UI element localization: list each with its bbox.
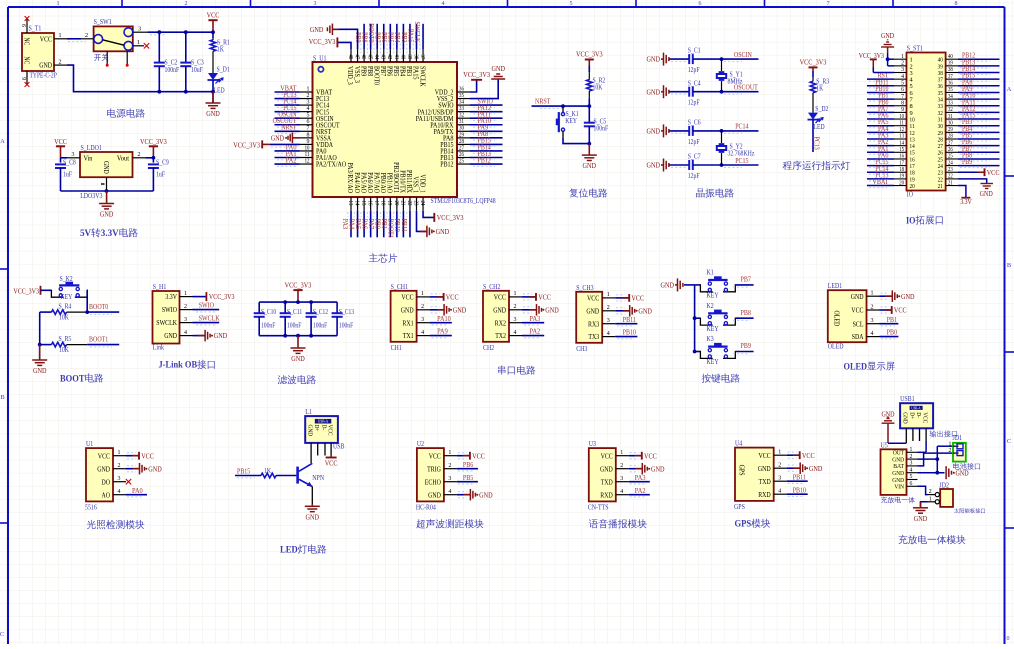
ground symbol right of chip (pointing up) — [491, 78, 505, 80]
wire/net PA12 at ST1 pin 32 — [958, 111, 1000, 113]
caption 串口电路 — [498, 366, 535, 375]
svg-text:28: 28 — [459, 139, 464, 145]
svg-text:GND: GND — [214, 331, 228, 340]
svg-text:31: 31 — [948, 114, 953, 120]
LDO GND pin — [106, 177, 108, 191]
svg-text:VCC_3V3: VCC_3V3 — [285, 281, 312, 290]
svg-text:13: 13 — [899, 134, 904, 140]
wire left rail to ground (boot) — [39, 312, 41, 360]
svg-text:24: 24 — [419, 201, 425, 206]
svg-text:2: 2 — [620, 463, 623, 469]
svg-text:PA2: PA2 — [286, 155, 297, 164]
svg-text:3: 3 — [138, 25, 141, 32]
wire/net PB11 at U1 bottom pin 22 — [409, 211, 411, 238]
svg-text:A: A — [0, 138, 5, 145]
svg-text:PB11: PB11 — [623, 315, 637, 324]
wire/net PA2 at U3 pin 4 — [629, 494, 650, 496]
svg-text:VCC: VCC — [207, 11, 220, 20]
svg-text:4: 4 — [778, 489, 781, 495]
wire/net PA10 at ST1 pin 34 — [958, 98, 1000, 100]
svg-text:34: 34 — [948, 94, 953, 100]
svg-text:23: 23 — [412, 201, 418, 206]
svg-text:GND: GND — [164, 332, 177, 340]
svg-text:3: 3 — [184, 317, 187, 323]
svg-text:3: 3 — [910, 461, 913, 467]
key S_K1 (reset button) — [562, 106, 564, 112]
wire/net PB0 at U1 bottom pin 18 — [383, 211, 385, 238]
svg-text:S_C13: S_C13 — [339, 309, 355, 316]
wire/net PB7 at K1 — [735, 284, 753, 286]
svg-text:PB6: PB6 — [463, 460, 474, 469]
no-connect at U1 pin 3 — [126, 479, 131, 484]
svg-text:12pF: 12pF — [688, 66, 700, 74]
svg-text:BOOT0: BOOT0 — [89, 302, 109, 311]
svg-text:27: 27 — [948, 140, 953, 146]
svg-text:S_C7: S_C7 — [688, 153, 701, 161]
svg-text:B: B — [0, 394, 5, 401]
svg-text:2: 2 — [607, 305, 610, 311]
svg-text:4: 4 — [118, 489, 121, 495]
ground symbol above ST1 (pointing up) — [887, 48, 889, 54]
svg-text:4: 4 — [448, 489, 451, 495]
power port VCC (LDO input) — [60, 146, 62, 158]
svg-text:1: 1 — [59, 33, 62, 39]
ground symbol boot — [39, 345, 41, 360]
caption 滤波电路 — [278, 375, 316, 384]
wire/net PB6 at ST1 pin 27 — [958, 145, 1000, 147]
svg-text:SWCLK: SWCLK — [199, 314, 221, 323]
svg-text:100nF: 100nF — [165, 66, 180, 74]
wire/net PA15 at ST1 pin 31 — [958, 118, 1000, 120]
svg-text:5: 5 — [307, 113, 310, 119]
svg-text:GND: GND — [647, 127, 661, 136]
wire/net PA3 at ST1 pin 13 — [867, 138, 894, 140]
L1 pin GND stub to Q1 collector — [310, 443, 312, 463]
svg-text:S_R4: S_R4 — [59, 302, 72, 310]
wire/net PA5 at U1 bottom pin 15 — [363, 211, 365, 238]
svg-text:OLED: OLED — [828, 343, 844, 351]
svg-text:S_H1: S_H1 — [153, 283, 167, 291]
svg-text:1: 1 — [118, 450, 121, 456]
module U2 HC-R04 — [417, 448, 444, 501]
svg-text:25: 25 — [459, 158, 464, 164]
svg-text:OLED: OLED — [832, 311, 840, 327]
svg-text:5: 5 — [910, 474, 913, 480]
svg-text:GND: GND — [453, 305, 467, 314]
ground rail of LDO block — [61, 190, 154, 192]
junction C2 bottom — [157, 90, 161, 94]
svg-text:1: 1 — [307, 86, 310, 92]
svg-text:GND: GND — [310, 25, 324, 34]
wire/net BOOT0 at U1 top pin 44 — [376, 24, 378, 50]
wire/net PA5 at ST1 pin 11 — [867, 125, 894, 127]
connector S_H1 J-Link — [153, 291, 180, 344]
wire/net OSCOUT at U1 pin 6 — [275, 124, 300, 126]
svg-text:2: 2 — [185, 1, 188, 7]
svg-text:2: 2 — [514, 304, 517, 310]
svg-text:VCC: VCC — [325, 459, 338, 468]
label 电池接口 — [953, 463, 980, 470]
svg-text:CH2: CH2 — [483, 344, 495, 352]
connector JD2 solar — [940, 489, 953, 507]
wire U5.2 GND joins gnd net — [918, 458, 938, 460]
svg-text:GND: GND — [914, 514, 928, 523]
wire/net PA0 at ST1 pin 16 — [867, 158, 894, 160]
svg-text:38: 38 — [412, 54, 418, 59]
svg-text:PB10: PB10 — [793, 485, 807, 494]
svg-text:VCC_3V3: VCC_3V3 — [859, 52, 885, 60]
power port VCC_3V3 top of chip — [336, 37, 338, 47]
wire/net PA9 at ST1 pin 35 — [958, 91, 1000, 93]
wire U1 VDD_3 to VCC_3V3 (top) — [337, 42, 351, 49]
wire/net PC15 at U1 pin 4 — [275, 111, 300, 113]
svg-text:TRIG: TRIG — [427, 465, 441, 473]
svg-text:PA2/TX/AO: PA2/TX/AO — [316, 161, 346, 169]
power port VCC_3V3 bottom of chip — [433, 213, 435, 222]
svg-text:GND: GND — [271, 134, 285, 143]
wire/net PA9 at U1 pin 30 — [470, 130, 503, 132]
svg-text:VCC: VCC — [538, 293, 551, 302]
svg-text:S_SW1: S_SW1 — [94, 18, 112, 26]
svg-text:26: 26 — [459, 152, 464, 158]
svg-text:GND: GND — [100, 210, 114, 219]
svg-text:22: 22 — [406, 201, 412, 206]
svg-text:S_C1: S_C1 — [688, 47, 701, 55]
svg-text:D+: D+ — [908, 412, 915, 419]
svg-text:43: 43 — [380, 54, 386, 59]
svg-text:PB9: PB9 — [962, 158, 973, 166]
svg-text:10K: 10K — [593, 84, 603, 92]
svg-text:GND: GND — [428, 491, 441, 499]
svg-text:VCC: VCC — [472, 451, 485, 460]
svg-text:25: 25 — [948, 154, 953, 160]
svg-text:GPS: GPS — [735, 519, 752, 530]
svg-text:1: 1 — [607, 292, 610, 298]
capacitor S_C13 100nF — [336, 302, 338, 313]
svg-text:S_ST1: S_ST1 — [907, 44, 923, 52]
svg-text:S_R5: S_R5 — [59, 335, 72, 343]
svg-text:1: 1 — [949, 441, 952, 447]
svg-text:PB10: PB10 — [623, 328, 637, 337]
svg-text:LED: LED — [214, 87, 225, 95]
ground symbol filter — [297, 336, 299, 348]
svg-text:GND: GND — [647, 161, 661, 170]
wire/net PA2 at ST1 pin 14 — [867, 145, 894, 147]
capacitor S_C11 100nF — [284, 302, 286, 313]
svg-text:VCC_3V3: VCC_3V3 — [576, 50, 603, 59]
wire/net PB7 at ST1 pin 26 — [958, 151, 1000, 153]
caption 5V转3.3V电路 — [80, 228, 138, 239]
svg-text:VCC: VCC — [644, 451, 657, 460]
svg-text:GND: GND — [651, 464, 665, 473]
svg-text:2: 2 — [85, 32, 88, 39]
svg-text:1K: 1K — [217, 46, 224, 54]
svg-text:3: 3 — [514, 317, 517, 323]
svg-text:ECHO: ECHO — [425, 478, 441, 486]
wire/net PA6 at ST1 pin 10 — [867, 118, 894, 120]
wire/net PB8 at ST1 pin 25 — [958, 158, 1000, 160]
svg-text:2: 2 — [949, 448, 952, 454]
caption 开关 — [94, 54, 108, 61]
wire/net GND at U2 pin 4 — [457, 494, 471, 496]
svg-text:GND: GND — [39, 62, 52, 70]
wire/net PB0 at LED1 pin 4 — [880, 336, 899, 338]
svg-text:HC-R04: HC-R04 — [416, 504, 436, 512]
svg-text:8MHz: 8MHz — [728, 77, 743, 85]
svg-text:4: 4 — [910, 467, 913, 473]
svg-text:15: 15 — [899, 147, 904, 153]
caption LED灯电路 — [280, 545, 326, 556]
svg-text:S_U1: S_U1 — [313, 55, 327, 63]
wire D2 to net PC13 — [812, 120, 814, 152]
svg-text:8: 8 — [955, 1, 958, 7]
wire T1.GND down and right to ground rail — [67, 65, 213, 92]
svg-text:19: 19 — [386, 201, 392, 206]
svg-text:VCC: VCC — [802, 451, 815, 460]
svg-text:24: 24 — [948, 160, 953, 166]
svg-text:7: 7 — [901, 94, 904, 100]
wire H1.4 to GND — [193, 335, 206, 337]
svg-text:Vout: Vout — [117, 155, 129, 163]
svg-text:GND: GND — [638, 306, 652, 315]
wire/net PC13 at U1 pin 2 — [275, 98, 300, 100]
caption 光照检测模块 — [87, 520, 145, 530]
wire U5.1 OUT to USB1 VCC — [918, 451, 927, 453]
capacitor S_C5 100nF — [588, 106, 590, 123]
wire/net PB8 at U1 top pin 45 — [370, 24, 372, 50]
svg-text:GND: GND — [493, 306, 506, 314]
svg-text:GND: GND — [980, 189, 994, 198]
wire/net PA1 at ST1 pin 15 — [867, 151, 894, 153]
wire K2 to BOOT0 node — [86, 290, 88, 312]
svg-text:16: 16 — [367, 201, 373, 206]
wire/net PB11 at S_CH3 pin 3 — [615, 323, 637, 325]
mcu S_U1 STM32F103C8T6 LQFP48 — [313, 62, 458, 197]
wire/net PA12 at U1 pin 33 — [470, 111, 503, 113]
svg-text:3: 3 — [448, 476, 451, 482]
svg-text:VCC: VCC — [631, 294, 644, 303]
caption 按键电路 — [702, 374, 740, 383]
module U3 CN-TTS — [589, 448, 616, 501]
svg-text:K3: K3 — [707, 335, 715, 343]
svg-text:2: 2 — [448, 463, 451, 469]
svg-text:36: 36 — [948, 81, 953, 87]
wire T1.VCC to SW1 pin2 — [67, 38, 81, 40]
svg-text:KEY: KEY — [565, 117, 577, 125]
junction ground rail at LED — [211, 90, 215, 94]
svg-text:SWIO: SWIO — [162, 306, 177, 314]
wire/net PB10 at S_CH3 pin 4 — [615, 336, 637, 338]
filter bottom rail — [259, 335, 337, 337]
svg-text:RX2: RX2 — [495, 319, 507, 327]
wire/net GND at U4 pin 2 — [787, 467, 801, 469]
svg-text:PB7: PB7 — [741, 275, 752, 284]
svg-text:PA9: PA9 — [437, 327, 448, 336]
svg-text:VCC: VCC — [429, 452, 441, 460]
resistor S_R1 1K — [212, 32, 214, 38]
regulator S_LDO1 LDO3V3 — [80, 152, 133, 177]
svg-text:18: 18 — [899, 167, 904, 173]
label 充放电一体 — [881, 496, 915, 503]
capacitor S_C12 100nF — [310, 302, 312, 313]
ST1 pin3 wire to VCC_3V3 — [872, 67, 874, 73]
resistor S_R5 10K — [40, 344, 52, 346]
svg-text:14: 14 — [353, 201, 359, 206]
wire/net GND at LED1 pin 1 — [880, 295, 893, 297]
svg-text:OSCIN: OSCIN — [734, 50, 753, 59]
wire/net PB15 at ST1 pin 37 — [958, 78, 1000, 80]
svg-text:GND: GND — [586, 307, 599, 315]
svg-text:VCC_3V3: VCC_3V3 — [800, 58, 827, 67]
wire/net PB3 at ST1 pin 30 — [958, 125, 1000, 127]
svg-text:7: 7 — [827, 1, 830, 7]
svg-text:RX3: RX3 — [588, 320, 600, 328]
key K2 — [693, 316, 697, 320]
caption 电源电路 — [107, 109, 145, 118]
key S_K2 — [51, 290, 63, 298]
caption IO拓展口 — [906, 215, 943, 226]
svg-text:SCL: SCL — [853, 320, 864, 328]
svg-text:4: 4 — [442, 1, 445, 7]
svg-text:KEY: KEY — [707, 358, 720, 366]
pin 2 Vout — [133, 157, 146, 159]
svg-text:GND: GND — [647, 55, 661, 64]
svg-text:RXD: RXD — [758, 491, 771, 499]
SW1 pin 2 stub — [81, 38, 94, 40]
svg-text:1: 1 — [871, 291, 874, 297]
net label NRST wire — [532, 105, 590, 107]
svg-text:37: 37 — [948, 74, 953, 80]
svg-text:VCC: VCC — [98, 452, 110, 460]
svg-text:41: 41 — [393, 54, 399, 59]
svg-text:48: 48 — [347, 54, 353, 59]
svg-text:GND: GND — [97, 465, 110, 473]
wire/net PA3 at U3 pin 3 — [629, 481, 650, 483]
svg-text:33: 33 — [948, 100, 953, 106]
module U1 5516 — [86, 448, 113, 501]
svg-text:JD1: JD1 — [953, 434, 963, 442]
svg-text:9: 9 — [20, 77, 26, 80]
ground symbol top of chip (pointing left) — [332, 28, 338, 30]
caption 充放电一体模块 — [898, 535, 965, 545]
svg-text:D-: D- — [320, 425, 327, 431]
svg-text:SWCLK: SWCLK — [413, 22, 422, 44]
wire/net GND at U1 pin 2 — [126, 468, 140, 470]
svg-text:GND: GND — [491, 64, 505, 73]
svg-text:29: 29 — [459, 132, 464, 138]
svg-text:LED1: LED1 — [828, 282, 843, 290]
svg-text:VCC: VCC — [987, 168, 1000, 177]
svg-text:3: 3 — [314, 1, 317, 7]
svg-text:2: 2 — [138, 152, 141, 158]
L1 pin D- stub — [324, 443, 326, 456]
wire/net PA15 at U1 top pin 38 — [416, 24, 418, 50]
svg-text:U5: U5 — [881, 441, 889, 449]
svg-text:GND: GND — [148, 464, 162, 473]
svg-text:VCC_3V3: VCC_3V3 — [463, 70, 490, 79]
svg-text:6: 6 — [910, 481, 913, 487]
svg-text:3.3V: 3.3V — [101, 228, 120, 239]
wire/net PC15 at ST1 pin 17 — [867, 165, 894, 167]
pin 3 Vin — [67, 157, 80, 159]
wire/net PC14 at U1 pin 3 — [275, 104, 300, 106]
wire/net PA4 at ST1 pin 12 — [867, 131, 894, 133]
svg-text:PC14: PC14 — [735, 122, 749, 131]
wire/net PA0 at U1 pin 10 — [275, 150, 300, 152]
caption BOOT电路 — [60, 373, 103, 384]
caption 程序运行指示灯 — [783, 161, 851, 171]
svg-text:TX2: TX2 — [495, 332, 506, 340]
wire S_C7 to net PC15 — [693, 164, 759, 166]
wire D1 to ground — [212, 80, 214, 103]
svg-text:SDA: SDA — [852, 333, 864, 341]
pin 6 of T1 (top, no connect) — [26, 19, 28, 33]
svg-text:6: 6 — [20, 24, 26, 27]
ground symbol solar — [920, 502, 922, 508]
wire/net PB11 at U4 pin 3 — [787, 480, 808, 482]
svg-text:SWCLK: SWCLK — [418, 66, 426, 87]
svg-text:17: 17 — [373, 201, 379, 206]
svg-text:2: 2 — [307, 93, 310, 99]
capacitor S_C4 12pF — [670, 91, 690, 93]
svg-text:OLED: OLED — [844, 361, 868, 372]
svg-text:3: 3 — [72, 152, 75, 158]
wire/net PA7 at U1 bottom pin 17 — [376, 211, 378, 238]
capacitor S_C6 12pF — [670, 130, 690, 132]
net PB15 wire — [235, 475, 261, 477]
svg-text:4: 4 — [607, 331, 610, 337]
wire/net PA2 at U1 pin 12 — [275, 163, 300, 165]
wire/net PA1 at U1 pin 11 — [275, 157, 300, 159]
svg-text:VCC_3V3: VCC_3V3 — [309, 37, 336, 46]
svg-text:S_D1: S_D1 — [217, 66, 231, 74]
svg-text:VCC: VCC — [851, 307, 863, 315]
wire/net PA10 at U1 pin 31 — [470, 124, 503, 126]
svg-text:VCC: VCC — [759, 452, 771, 460]
power port VCC_3V3 at U1 pin 9 VDDA — [270, 143, 300, 145]
ST1 pin23 wire to VCC — [958, 171, 984, 173]
wire/net PB13 at ST1 pin 39 — [958, 65, 1000, 67]
svg-text:LDO3V3: LDO3V3 — [80, 192, 103, 200]
ground symbol bottom of chip (pointing right) — [420, 230, 427, 232]
LED S_D2 — [808, 113, 818, 120]
wire/net PB14 at ST1 pin 38 — [958, 72, 1000, 74]
svg-text:GND: GND — [545, 305, 559, 314]
svg-text:CN-TTS: CN-TTS — [588, 504, 609, 512]
svg-text:C: C — [1007, 438, 1011, 445]
caption 超声波测距模块 — [416, 519, 483, 528]
svg-text:S_C11: S_C11 — [287, 309, 302, 316]
svg-text:PB12: PB12 — [478, 155, 492, 164]
svg-text:1: 1 — [137, 39, 140, 46]
svg-text:PB11: PB11 — [400, 219, 409, 233]
svg-text:8: 8 — [901, 100, 904, 106]
svg-text:6: 6 — [699, 1, 702, 7]
caption 语音播报模块 — [589, 519, 647, 529]
svg-text:3.3V: 3.3V — [960, 198, 972, 206]
svg-text:40: 40 — [399, 54, 405, 59]
wire S_C4 to net OSCOUT — [693, 91, 759, 93]
svg-text:NC: NC — [23, 57, 30, 65]
svg-text:GND: GND — [206, 109, 220, 118]
svg-text:1uF: 1uF — [156, 170, 165, 178]
svg-text:2: 2 — [910, 454, 913, 460]
svg-text:44: 44 — [373, 54, 379, 59]
svg-text:VCC: VCC — [54, 137, 67, 146]
wire/net PB9 at U1 top pin 46 — [363, 24, 365, 50]
svg-text:TXD: TXD — [759, 478, 771, 486]
svg-text:4: 4 — [421, 330, 424, 336]
